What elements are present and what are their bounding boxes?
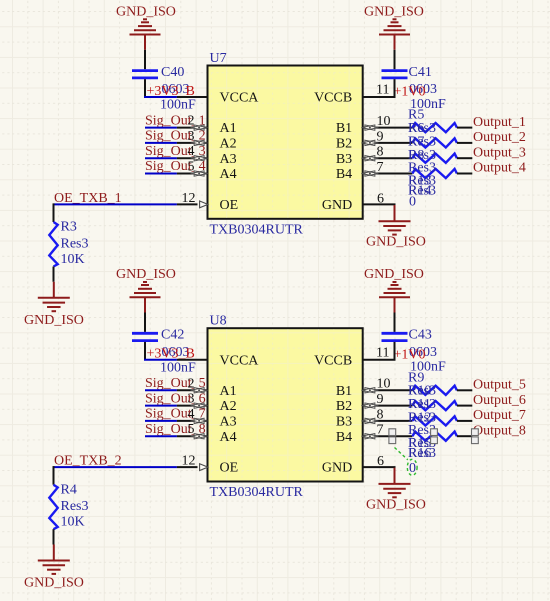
net label OE_TXB_2 + wire to pin 12 bbox=[54, 454, 208, 471]
svg-text:GND_ISO: GND_ISO bbox=[24, 576, 84, 591]
wire cap to VCCB pin 11 bbox=[363, 342, 396, 360]
svg-text:11: 11 bbox=[376, 345, 389, 360]
capacitor C40 bbox=[132, 65, 196, 113]
svg-text:9: 9 bbox=[377, 129, 384, 144]
svg-text:Output_7: Output_7 bbox=[473, 408, 526, 423]
power port GND_ISO (above C42) bbox=[116, 267, 176, 312]
svg-text:R4: R4 bbox=[61, 482, 77, 497]
svg-text:B4: B4 bbox=[336, 167, 352, 182]
wire pin 6 GND to ground bbox=[363, 191, 396, 206]
power port GND_ISO (below R3) bbox=[24, 282, 84, 328]
svg-text:B4: B4 bbox=[336, 430, 352, 445]
svg-text:A2: A2 bbox=[220, 137, 237, 152]
net label Sig_Out_6 + wire to pin 3 bbox=[145, 391, 208, 408]
svg-text:VCCB: VCCB bbox=[314, 91, 352, 106]
svg-text:OE: OE bbox=[220, 461, 239, 476]
svg-text:TXB0304RUTR: TXB0304RUTR bbox=[210, 222, 304, 237]
svg-text:GND_ISO: GND_ISO bbox=[366, 235, 426, 250]
svg-text:10: 10 bbox=[377, 377, 391, 392]
svg-text:4: 4 bbox=[188, 144, 195, 159]
svg-text:R3: R3 bbox=[61, 220, 77, 235]
power port GND_ISO (pin 6) bbox=[366, 205, 426, 250]
svg-text:B3: B3 bbox=[336, 152, 352, 167]
svg-text:4: 4 bbox=[188, 407, 195, 422]
svg-text:B3: B3 bbox=[336, 415, 352, 430]
svg-text:12: 12 bbox=[182, 191, 196, 206]
resistor R10 row: pin 9 to Output_6 bbox=[361, 392, 525, 410]
wire cap to VCCA pin bbox=[144, 79, 146, 97]
wire pin 6 GND to ground bbox=[363, 454, 396, 469]
svg-text:GND_ISO: GND_ISO bbox=[364, 267, 424, 282]
svg-text:+1V0: +1V0 bbox=[394, 347, 426, 362]
svg-text:B2: B2 bbox=[336, 399, 352, 414]
svg-text:GND: GND bbox=[322, 461, 352, 476]
svg-text:A3: A3 bbox=[220, 415, 237, 430]
svg-text:GND_ISO: GND_ISO bbox=[364, 5, 424, 20]
svg-text:U8: U8 bbox=[210, 314, 227, 329]
svg-text:A4: A4 bbox=[220, 430, 237, 445]
svg-text:A2: A2 bbox=[220, 399, 237, 414]
capacitor C42 bbox=[132, 328, 196, 376]
designator/value text stack R-side bbox=[408, 108, 436, 210]
svg-text:2: 2 bbox=[188, 376, 195, 391]
svg-text:11: 11 bbox=[376, 83, 389, 98]
svg-text:GND: GND bbox=[322, 198, 352, 213]
capacitor C41 bbox=[382, 65, 447, 112]
svg-text:GND_ISO: GND_ISO bbox=[24, 313, 84, 328]
svg-text:C41: C41 bbox=[409, 65, 432, 80]
footprint pads (unplaced part) on B4 row bbox=[389, 429, 478, 444]
net label Sig_Out_7 + wire to pin 4 bbox=[145, 407, 208, 424]
resistor R6 row: pin 9 to Output_2 bbox=[361, 129, 525, 147]
svg-text:10: 10 bbox=[377, 114, 391, 129]
resistor R5 row: pin 10 to Output_1 bbox=[361, 114, 525, 132]
wire cap to VCCA pin bbox=[144, 342, 146, 360]
svg-text:Res3: Res3 bbox=[61, 236, 89, 251]
svg-text:U7: U7 bbox=[210, 51, 227, 66]
svg-text:VCCA: VCCA bbox=[220, 91, 260, 106]
svg-text:Output_8: Output_8 bbox=[473, 423, 526, 438]
power port GND_ISO (pin 6) bbox=[366, 468, 426, 513]
svg-text:VCCA: VCCA bbox=[220, 353, 260, 368]
resistor R11 row: pin 8 to Output_7 bbox=[361, 407, 525, 425]
resistor R9 row: pin 10 to Output_5 bbox=[361, 377, 525, 395]
svg-text:5: 5 bbox=[188, 422, 195, 437]
svg-text:Output_3: Output_3 bbox=[473, 145, 526, 160]
svg-text:7: 7 bbox=[377, 423, 384, 438]
net label Sig_Out_5 + wire to pin 2 bbox=[145, 376, 208, 393]
svg-text:7: 7 bbox=[377, 160, 384, 175]
net label Sig_Out_4 + wire to pin 5 bbox=[145, 159, 208, 176]
wire cap to VCCB pin 11 bbox=[363, 79, 396, 97]
svg-text:A1: A1 bbox=[220, 384, 237, 399]
wire gnd to cap bbox=[144, 50, 146, 69]
svg-text:A1: A1 bbox=[220, 121, 237, 136]
IC U7 TXB0304RUTR bbox=[208, 51, 363, 237]
svg-text:10K: 10K bbox=[61, 252, 85, 267]
capacitor C43 bbox=[382, 328, 447, 375]
svg-text:B1: B1 bbox=[336, 121, 352, 136]
svg-text:A4: A4 bbox=[220, 167, 237, 182]
designator/value text stack R-side bbox=[408, 370, 436, 476]
svg-text:A3: A3 bbox=[220, 152, 237, 167]
wire gnd to cap bbox=[144, 313, 146, 332]
svg-text:+1V0: +1V0 bbox=[394, 85, 426, 100]
svg-text:VCCB: VCCB bbox=[314, 353, 352, 368]
svg-text:Output_2: Output_2 bbox=[473, 130, 526, 145]
svg-text:GND_ISO: GND_ISO bbox=[366, 497, 426, 512]
svg-text:Output_4: Output_4 bbox=[473, 161, 526, 176]
resistor R4 10K bbox=[49, 466, 88, 544]
svg-text:3: 3 bbox=[188, 392, 195, 407]
svg-text:C42: C42 bbox=[161, 328, 184, 343]
net label Sig_Out_8 + wire to pin 5 bbox=[145, 422, 208, 439]
svg-text:0: 0 bbox=[409, 194, 416, 209]
svg-text:12: 12 bbox=[182, 454, 196, 469]
net label Sig_Out_3 + wire to pin 4 bbox=[145, 144, 208, 161]
IC U8 TXB0304RUTR bbox=[208, 314, 363, 500]
net label Sig_Out_1 + wire to pin 2 bbox=[145, 113, 208, 130]
svg-text:B2: B2 bbox=[336, 137, 352, 152]
svg-text:Res3: Res3 bbox=[61, 499, 89, 514]
svg-text:8: 8 bbox=[377, 407, 384, 422]
svg-text:100nF: 100nF bbox=[160, 98, 196, 113]
svg-text:C40: C40 bbox=[161, 65, 184, 80]
svg-text:10K: 10K bbox=[61, 515, 85, 530]
power port GND_ISO (above C40) bbox=[116, 5, 176, 50]
wire gnd to cap bbox=[394, 50, 396, 69]
svg-text:8: 8 bbox=[377, 145, 384, 160]
svg-text:B1: B1 bbox=[336, 384, 352, 399]
resistor R12 row: pin 7 to Output_8 bbox=[361, 423, 525, 441]
svg-text:100nF: 100nF bbox=[160, 360, 196, 375]
power port GND_ISO (above C41) bbox=[364, 5, 424, 50]
svg-text:6: 6 bbox=[377, 454, 384, 469]
svg-text:Output_5: Output_5 bbox=[473, 378, 526, 393]
svg-text:2: 2 bbox=[188, 114, 195, 129]
resistor R8 row: pin 7 to Output_4 bbox=[361, 160, 525, 178]
green DRC dashed marker bbox=[395, 448, 408, 460]
resistor R3 10K bbox=[49, 203, 88, 281]
svg-text:Output_1: Output_1 bbox=[473, 115, 526, 130]
net label Sig_Out_2 + wire to pin 3 bbox=[145, 129, 208, 146]
svg-text:5: 5 bbox=[188, 160, 195, 175]
svg-text:Output_6: Output_6 bbox=[473, 393, 526, 408]
svg-text:GND_ISO: GND_ISO bbox=[116, 267, 176, 282]
power port GND_ISO (below R4) bbox=[24, 545, 84, 591]
svg-text:TXB0304RUTR: TXB0304RUTR bbox=[210, 485, 304, 500]
svg-text:OE: OE bbox=[220, 198, 239, 213]
svg-text:9: 9 bbox=[377, 392, 384, 407]
wire gnd to cap bbox=[394, 313, 396, 332]
power port GND_ISO (above C43) bbox=[364, 267, 424, 312]
svg-text:3: 3 bbox=[188, 129, 195, 144]
net label OE_TXB_1 + wire to pin 12 bbox=[54, 191, 208, 208]
svg-text:GND_ISO: GND_ISO bbox=[116, 5, 176, 20]
svg-text:6: 6 bbox=[377, 191, 384, 206]
resistor R7 row: pin 8 to Output_3 bbox=[361, 145, 525, 163]
svg-text:C43: C43 bbox=[409, 328, 432, 343]
